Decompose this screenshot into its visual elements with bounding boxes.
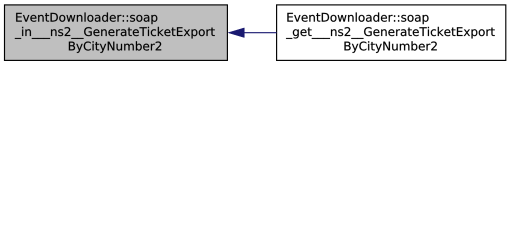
label line 1 right node: EventDownloader::soap: [287, 12, 428, 24]
label line 2 left node: _in___ns2__GenerateTicketExport: [15, 27, 215, 39]
node box: EventDownloader::soap_in___ns2__GenerateTicketExportByCityNumber2 (current node, grey fill): [5, 5, 228, 61]
wire: call-graph edge from right node to left node: [244, 32, 277, 34]
label line 3 right node: ByCityNumber2: [344, 41, 436, 53]
node box: EventDownloader::soap_get___ns2__GenerateTicketExportByCityNumber2 (white fill): [277, 5, 506, 61]
label line 2 right node: _get___ns2__GenerateTicketExport: [286, 27, 495, 39]
label line 3 left node: ByCityNumber2: [69, 41, 161, 53]
arrowhead pointing left at left node: [228, 28, 244, 38]
label line 1 left node: EventDownloader::soap: [16, 12, 157, 24]
